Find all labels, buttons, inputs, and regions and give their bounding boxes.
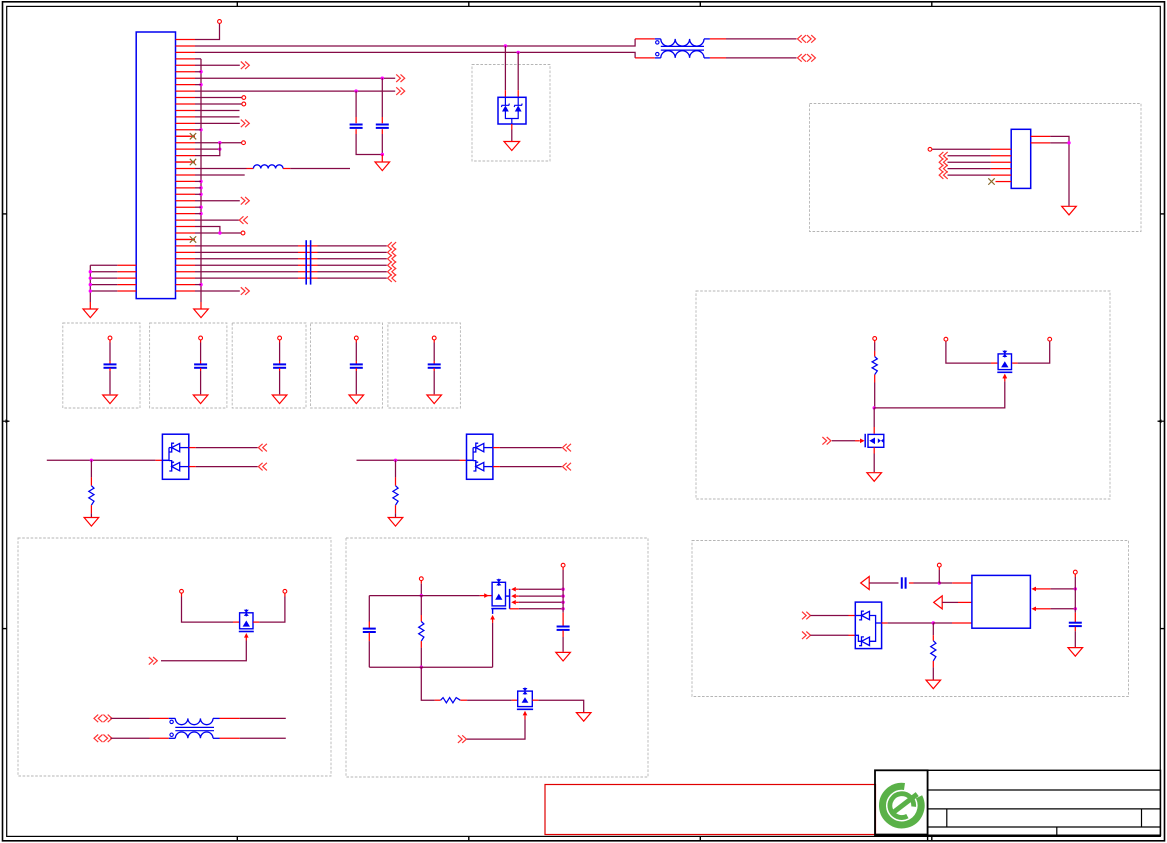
wire IC pin <box>1031 607 1077 612</box>
ground <box>83 309 98 318</box>
wire drain pin <box>511 587 565 592</box>
wire drain pin <box>511 600 565 605</box>
wire <box>874 340 876 356</box>
wire pin24 <box>195 187 201 189</box>
wire <box>420 596 422 622</box>
port bidir <box>94 715 112 723</box>
wire <box>283 168 350 170</box>
wire pin21 <box>195 168 253 170</box>
port bidir <box>94 735 112 743</box>
wire <box>932 661 934 680</box>
wire pin3 net B <box>195 51 635 58</box>
bus entry marks <box>306 240 310 284</box>
wire pin40 <box>195 290 240 292</box>
ground <box>193 395 208 404</box>
node circle <box>937 563 941 567</box>
port in <box>802 632 811 640</box>
resistor R <box>931 641 936 661</box>
wire TVS drop 1 <box>504 46 506 97</box>
wire pin4 <box>195 58 201 60</box>
revision note red box <box>545 785 876 835</box>
port out <box>241 287 250 295</box>
ground <box>272 395 287 404</box>
ground <box>504 142 520 151</box>
transistor Q1 <box>865 434 884 448</box>
resistor R <box>419 622 424 642</box>
wire <box>1074 574 1076 609</box>
port <box>396 87 405 95</box>
node circle <box>242 102 246 106</box>
wire gate <box>161 637 246 661</box>
wire <box>279 368 281 394</box>
wire <box>869 582 898 584</box>
ground <box>556 652 571 661</box>
wire <box>562 567 564 626</box>
ground <box>1062 206 1077 215</box>
wire <box>200 340 202 364</box>
ground <box>103 395 118 404</box>
wire pin15 <box>195 129 201 131</box>
wire <box>356 129 382 154</box>
wire IC pin <box>1031 587 1077 592</box>
wire drain pin <box>510 607 565 610</box>
wire gate <box>466 711 527 739</box>
node circle <box>561 563 565 567</box>
wire pin25 <box>195 193 201 195</box>
capacitor <box>104 364 117 367</box>
node circle <box>242 96 246 100</box>
connector J2 right pin stubs <box>1031 136 1051 142</box>
wire <box>1074 609 1076 622</box>
wire <box>909 581 972 584</box>
wire <box>381 129 384 161</box>
port bidir <box>798 54 816 62</box>
wire <box>395 505 397 517</box>
wire pin18 <box>195 147 222 150</box>
wire pin27 <box>195 206 201 208</box>
wire <box>433 368 435 394</box>
wire <box>355 340 357 364</box>
wire pin26 <box>195 200 240 202</box>
wire <box>946 341 998 363</box>
wire pin7 <box>195 77 395 80</box>
port in <box>239 216 248 224</box>
ground <box>84 518 99 527</box>
connector J2 <box>1011 129 1030 188</box>
wire <box>433 340 435 364</box>
wire <box>421 667 440 700</box>
connector J1 right pin stubs <box>176 40 195 292</box>
node circle <box>278 336 282 340</box>
wire bottom rail <box>369 666 492 668</box>
no-connect J2 pin8 <box>988 178 994 184</box>
wire cap drop 1 <box>355 91 357 123</box>
ground <box>349 395 364 404</box>
wire <box>220 737 286 739</box>
wire pin23 <box>195 180 201 182</box>
inductor L1 <box>253 165 283 169</box>
resistor R <box>441 698 461 703</box>
wire <box>948 174 991 176</box>
wire pin9 <box>195 89 395 92</box>
wire choke out 2 <box>710 57 797 59</box>
wire J2 gnd <box>1050 136 1071 206</box>
wire pin19 <box>195 143 220 156</box>
capacitor <box>350 364 363 367</box>
wire <box>90 505 92 517</box>
port out <box>563 463 572 471</box>
wire pin12 <box>195 109 240 111</box>
wire <box>810 634 855 636</box>
port in <box>939 171 948 179</box>
node circle <box>928 147 932 151</box>
wire <box>109 340 111 364</box>
wire pin2 net A <box>195 39 635 48</box>
wire gate <box>490 615 495 667</box>
left pins GND wire <box>90 265 117 309</box>
wire gate <box>822 437 864 445</box>
wire pin11 <box>195 103 242 105</box>
wire input <box>357 459 467 462</box>
node circle <box>944 337 948 341</box>
ground <box>427 395 442 404</box>
wire <box>938 567 940 583</box>
connector J1 left pin stubs <box>117 265 136 291</box>
wire <box>110 717 168 719</box>
port out <box>241 62 250 70</box>
wire <box>948 161 991 163</box>
dual diode D <box>162 434 188 479</box>
capacitor <box>428 364 441 367</box>
wire <box>942 601 972 603</box>
capacitor <box>273 364 286 367</box>
port in <box>939 165 948 173</box>
wire <box>182 593 240 622</box>
port out <box>563 444 572 452</box>
resistor R <box>89 486 94 506</box>
ports in <box>388 242 397 282</box>
resistor R <box>393 486 398 506</box>
node circle <box>1073 570 1077 574</box>
wire top rail <box>369 593 492 598</box>
wire <box>368 633 370 668</box>
wire <box>532 700 583 712</box>
wire out <box>882 621 972 624</box>
node circle <box>241 231 245 235</box>
node circle <box>180 589 184 593</box>
common-mode choke T2 <box>169 718 220 738</box>
capacitor C <box>363 629 376 632</box>
port out <box>258 444 267 452</box>
wire <box>395 460 397 485</box>
wire <box>948 155 991 157</box>
ground <box>926 680 941 689</box>
wire drain pin <box>511 594 565 599</box>
wire <box>873 375 876 410</box>
wire <box>460 699 517 701</box>
wire <box>368 596 370 628</box>
port tri out <box>861 577 870 590</box>
no-connect pin16 <box>176 133 197 139</box>
node circle <box>108 336 112 340</box>
wire pin8 <box>195 84 201 86</box>
capacitor C <box>557 627 570 630</box>
wire pin22 <box>195 174 245 176</box>
port bidir <box>798 35 816 43</box>
node circle <box>432 336 436 340</box>
wire input <box>47 459 163 462</box>
wire pin28 <box>195 213 201 215</box>
wire cap drop 2 <box>381 78 383 123</box>
wire pin5 <box>195 64 240 66</box>
node circle <box>1048 337 1052 341</box>
wire <box>355 368 357 394</box>
ground <box>576 713 591 722</box>
dual diode D <box>467 434 493 479</box>
common-mode choke T1 <box>635 39 710 58</box>
resistor R <box>872 357 877 375</box>
wire pin14 <box>195 122 240 124</box>
port in <box>458 735 467 743</box>
wire pin31 <box>195 231 241 234</box>
port in <box>149 657 158 665</box>
junction dots <box>89 270 92 293</box>
connector J2 left pin stubs <box>991 149 1011 181</box>
node circle TP1 <box>218 20 222 24</box>
ground <box>375 162 390 171</box>
capacitor C1 <box>350 125 363 128</box>
port out <box>241 197 250 205</box>
dual diode D <box>855 602 881 649</box>
wire bus bundle pins33-38 <box>195 246 387 278</box>
wire <box>932 623 934 641</box>
wire TVS drop 2 <box>517 52 519 97</box>
transistor Q5 <box>517 688 533 710</box>
ground <box>194 309 209 318</box>
wire <box>810 615 855 617</box>
ground <box>388 518 403 527</box>
ground <box>1068 648 1083 657</box>
wire out 1 <box>493 447 562 449</box>
wire pin17 <box>195 141 242 144</box>
node circle <box>199 336 203 340</box>
port out <box>258 463 267 471</box>
no-connect pin32 <box>176 236 197 242</box>
wire <box>511 124 513 141</box>
transistor Q4 <box>491 579 509 614</box>
transistor Q2 <box>997 350 1012 378</box>
wire <box>279 340 281 364</box>
wire <box>1012 341 1049 363</box>
port in <box>802 612 811 620</box>
logo <box>883 786 922 825</box>
TVS diode D1 <box>498 97 526 124</box>
port tri out <box>934 596 943 609</box>
wire <box>420 641 423 669</box>
wire choke out 1 <box>710 38 797 40</box>
wire <box>948 168 991 170</box>
capacitor C <box>1069 623 1082 626</box>
wire <box>90 460 92 485</box>
transistor Q3 <box>239 609 254 637</box>
port in <box>939 158 948 166</box>
wire pin39 <box>195 284 201 286</box>
IC U1 <box>972 575 1031 628</box>
wire out 2 <box>493 466 562 468</box>
port out <box>241 120 250 128</box>
wire out 2 <box>189 466 258 468</box>
wire pin6 <box>195 71 201 73</box>
wire pin10 <box>195 97 242 99</box>
wire <box>1074 627 1076 647</box>
wire <box>562 631 564 652</box>
capacitor <box>194 364 207 367</box>
node circle <box>873 337 877 341</box>
node circle <box>283 589 287 593</box>
wire pin29 <box>195 219 239 221</box>
wire <box>873 408 875 434</box>
wire <box>200 368 202 394</box>
node circle <box>354 336 358 340</box>
connector J1 <box>136 32 175 299</box>
no-connect pin20 <box>176 159 197 165</box>
GND bus wire <box>200 59 202 309</box>
wire <box>420 581 423 598</box>
port <box>396 74 405 82</box>
node circle <box>242 141 246 145</box>
node circle <box>419 577 423 581</box>
wire drain-gate link <box>874 374 1007 408</box>
wire <box>220 717 286 719</box>
ground <box>867 473 882 482</box>
wire <box>110 737 168 739</box>
wire <box>109 368 111 394</box>
junction dots on GND bus <box>199 70 202 286</box>
capacitor C2 <box>376 125 389 128</box>
wire pin13 <box>195 116 240 118</box>
wire source <box>873 447 875 472</box>
title block <box>875 770 1161 841</box>
port in <box>939 152 948 160</box>
capacitor C <box>902 577 906 588</box>
wire <box>253 593 285 622</box>
wire pin30 <box>195 227 220 233</box>
wire pin1 <box>195 24 220 40</box>
wire out 1 <box>189 447 258 449</box>
wire J2 pin3 <box>932 148 991 150</box>
